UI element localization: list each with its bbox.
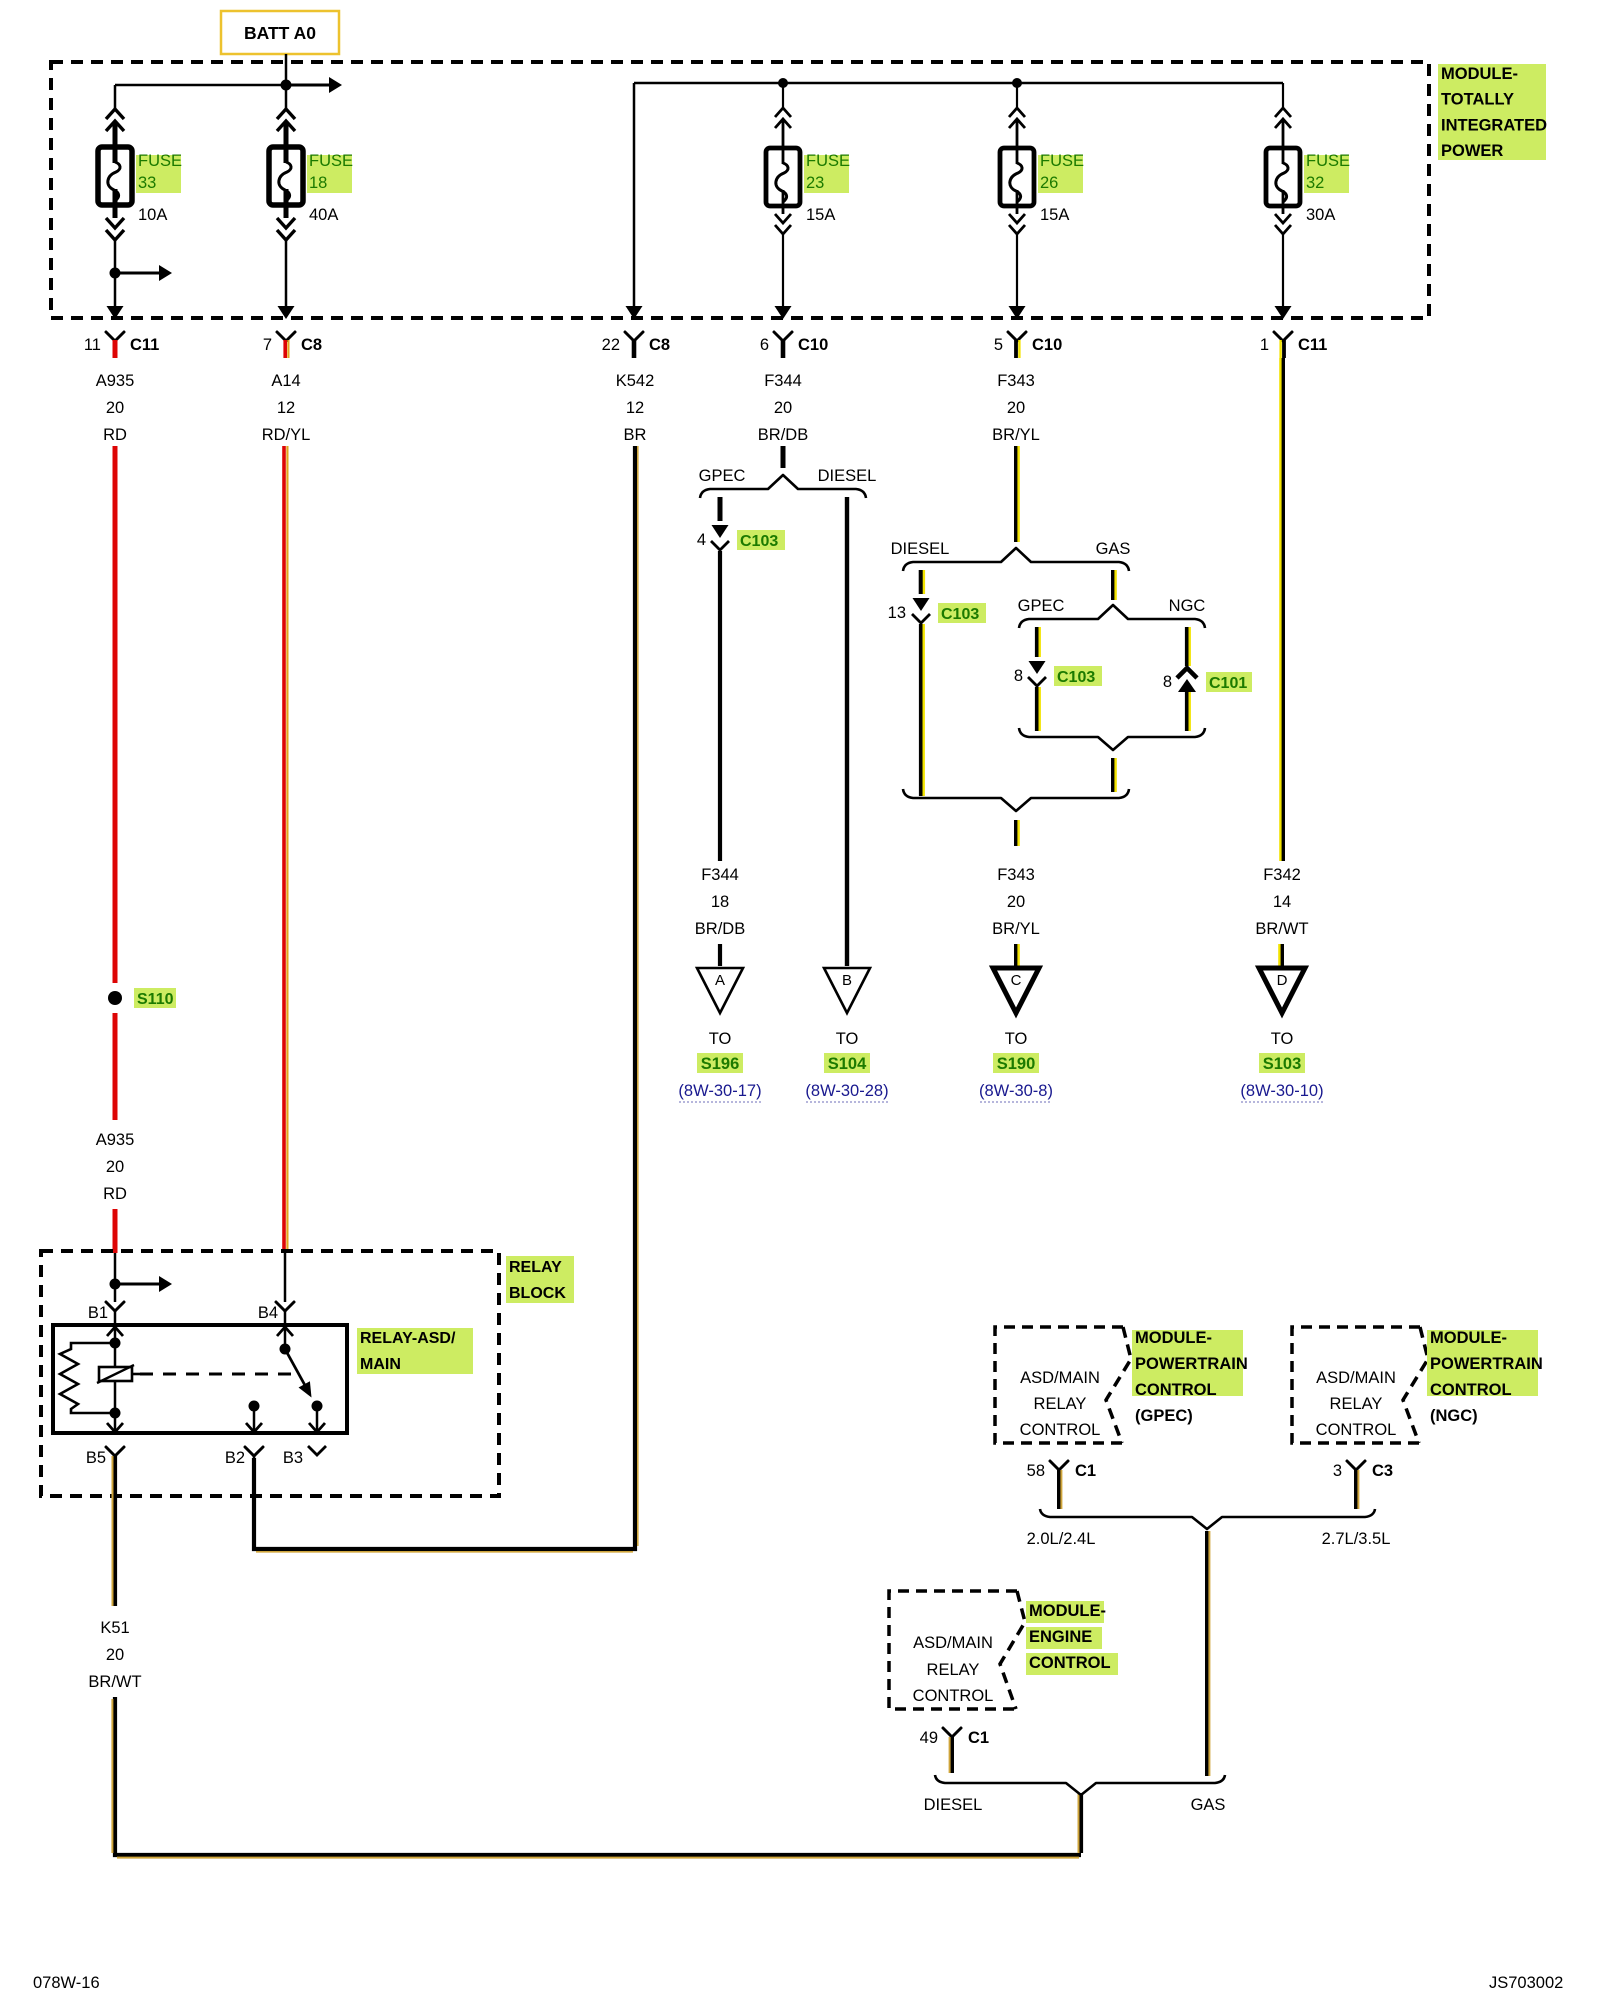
svg-text:FUSE: FUSE <box>806 152 850 170</box>
svg-text:CONTROL: CONTROL <box>1316 1421 1397 1439</box>
svg-text:14: 14 <box>1273 893 1291 911</box>
svg-text:C103: C103 <box>941 606 979 623</box>
svg-text:BR/WT: BR/WT <box>1255 920 1308 938</box>
svg-text:20: 20 <box>1007 399 1025 417</box>
svg-text:NGC: NGC <box>1169 597 1206 615</box>
svg-text:BR/DB: BR/DB <box>758 426 808 444</box>
svg-text:F343: F343 <box>997 866 1035 884</box>
svg-text:(8W-30-17): (8W-30-17) <box>678 1082 761 1100</box>
svg-text:DIESEL: DIESEL <box>818 467 877 485</box>
svg-text:MODULE-: MODULE- <box>1441 65 1518 83</box>
svg-text:ENGINE: ENGINE <box>1029 1628 1092 1646</box>
svg-text:C3: C3 <box>1372 1462 1393 1480</box>
svg-text:C1: C1 <box>1075 1462 1096 1480</box>
svg-text:18: 18 <box>711 893 729 911</box>
svg-text:6: 6 <box>760 336 769 354</box>
svg-text:TO: TO <box>709 1030 732 1048</box>
svg-text:CONTROL: CONTROL <box>1135 1381 1217 1399</box>
svg-text:15A: 15A <box>1040 206 1069 224</box>
svg-text:MODULE-: MODULE- <box>1029 1602 1106 1620</box>
svg-text:RD/YL: RD/YL <box>262 426 311 444</box>
svg-text:BR/DB: BR/DB <box>695 920 745 938</box>
svg-text:INTEGRATED: INTEGRATED <box>1441 116 1547 134</box>
svg-text:FUSE: FUSE <box>138 152 182 170</box>
svg-text:A935: A935 <box>96 372 135 390</box>
svg-text:C8: C8 <box>301 336 322 354</box>
svg-text:20: 20 <box>774 399 792 417</box>
svg-text:F344: F344 <box>764 372 802 390</box>
svg-text:RELAY: RELAY <box>509 1259 562 1276</box>
svg-text:2.0L/2.4L: 2.0L/2.4L <box>1027 1530 1096 1548</box>
svg-text:GPEC: GPEC <box>699 467 746 485</box>
svg-text:TO: TO <box>1271 1030 1294 1048</box>
svg-text:D: D <box>1277 972 1288 989</box>
svg-text:FUSE: FUSE <box>309 152 353 170</box>
svg-text:TO: TO <box>836 1030 859 1048</box>
svg-text:ASD/MAIN: ASD/MAIN <box>913 1634 993 1652</box>
svg-text:20: 20 <box>106 1158 124 1176</box>
svg-text:B2: B2 <box>225 1449 245 1467</box>
svg-text:CONTROL: CONTROL <box>1020 1421 1101 1439</box>
svg-text:POWER: POWER <box>1441 142 1503 160</box>
svg-text:C: C <box>1011 972 1022 989</box>
svg-text:12: 12 <box>277 399 295 417</box>
svg-text:GAS: GAS <box>1191 1796 1226 1814</box>
svg-text:ASD/MAIN: ASD/MAIN <box>1316 1369 1396 1387</box>
svg-text:22: 22 <box>602 336 620 354</box>
svg-text:BR: BR <box>624 426 647 444</box>
svg-text:C11: C11 <box>1298 336 1327 354</box>
svg-text:B5: B5 <box>86 1449 106 1467</box>
svg-text:F343: F343 <box>997 372 1035 390</box>
svg-text:TOTALLY: TOTALLY <box>1441 91 1514 109</box>
svg-text:7: 7 <box>263 336 272 354</box>
svg-text:FUSE: FUSE <box>1040 152 1084 170</box>
svg-text:FUSE: FUSE <box>1306 152 1350 170</box>
svg-text:32: 32 <box>1306 174 1324 192</box>
svg-text:13: 13 <box>888 604 906 622</box>
svg-text:JS703002: JS703002 <box>1489 1974 1563 1992</box>
svg-text:S104: S104 <box>828 1055 867 1073</box>
svg-text:33: 33 <box>138 174 156 192</box>
svg-text:B3: B3 <box>283 1449 303 1467</box>
svg-text:2.7L/3.5L: 2.7L/3.5L <box>1322 1530 1391 1548</box>
svg-text:CONTROL: CONTROL <box>1029 1654 1111 1672</box>
svg-text:078W-16: 078W-16 <box>33 1974 100 1992</box>
svg-text:(8W-30-8): (8W-30-8) <box>979 1082 1053 1100</box>
svg-text:RELAY: RELAY <box>927 1661 980 1679</box>
svg-text:12: 12 <box>626 399 644 417</box>
svg-text:(8W-30-10): (8W-30-10) <box>1240 1082 1323 1100</box>
svg-text:TO: TO <box>1005 1030 1028 1048</box>
svg-text:RELAY: RELAY <box>1034 1395 1087 1413</box>
svg-text:MAIN: MAIN <box>360 1356 401 1373</box>
svg-text:A: A <box>715 972 725 989</box>
svg-text:40A: 40A <box>309 206 338 224</box>
svg-text:BR/YL: BR/YL <box>992 920 1040 938</box>
svg-text:8: 8 <box>1014 667 1023 685</box>
svg-text:C11: C11 <box>130 336 159 354</box>
svg-text:C8: C8 <box>649 336 670 354</box>
svg-text:B1: B1 <box>88 1304 108 1322</box>
svg-text:20: 20 <box>1007 893 1025 911</box>
svg-text:15A: 15A <box>806 206 835 224</box>
svg-text:MODULE-: MODULE- <box>1135 1329 1212 1347</box>
svg-text:BR/YL: BR/YL <box>992 426 1040 444</box>
svg-text:4: 4 <box>697 531 706 549</box>
svg-text:49: 49 <box>920 1729 938 1747</box>
svg-text:BLOCK: BLOCK <box>509 1285 566 1302</box>
svg-text:(8W-30-28): (8W-30-28) <box>805 1082 888 1100</box>
svg-text:1: 1 <box>1260 336 1269 354</box>
svg-text:MODULE-: MODULE- <box>1430 1329 1507 1347</box>
svg-text:20: 20 <box>106 1646 124 1664</box>
svg-text:BATT A0: BATT A0 <box>244 23 316 43</box>
svg-text:CONTROL: CONTROL <box>1430 1381 1512 1399</box>
svg-text:ASD/MAIN: ASD/MAIN <box>1020 1369 1100 1387</box>
svg-text:DIESEL: DIESEL <box>924 1796 983 1814</box>
svg-text:S190: S190 <box>997 1055 1036 1073</box>
svg-text:20: 20 <box>106 399 124 417</box>
svg-text:S103: S103 <box>1263 1055 1302 1073</box>
svg-text:C103: C103 <box>740 533 778 550</box>
svg-text:F342: F342 <box>1263 866 1301 884</box>
svg-text:DIESEL: DIESEL <box>891 540 950 558</box>
svg-text:30A: 30A <box>1306 206 1335 224</box>
svg-text:POWERTRAIN: POWERTRAIN <box>1430 1355 1543 1373</box>
svg-text:C103: C103 <box>1057 669 1095 686</box>
svg-text:S196: S196 <box>701 1055 740 1073</box>
svg-text:CONTROL: CONTROL <box>913 1687 994 1705</box>
svg-text:18: 18 <box>309 174 327 192</box>
svg-text:RD: RD <box>103 426 127 444</box>
svg-text:3: 3 <box>1333 1462 1342 1480</box>
svg-text:GPEC: GPEC <box>1018 597 1065 615</box>
svg-text:BR/WT: BR/WT <box>88 1673 141 1691</box>
svg-text:A14: A14 <box>271 372 300 390</box>
svg-text:RELAY-ASD/: RELAY-ASD/ <box>360 1330 456 1347</box>
svg-text:K51: K51 <box>100 1619 129 1637</box>
svg-text:POWERTRAIN: POWERTRAIN <box>1135 1355 1248 1373</box>
svg-text:8: 8 <box>1163 673 1172 691</box>
svg-text:A935: A935 <box>96 1131 135 1149</box>
svg-text:C10: C10 <box>798 336 828 354</box>
svg-text:26: 26 <box>1040 174 1058 192</box>
svg-text:23: 23 <box>806 174 824 192</box>
svg-text:58: 58 <box>1027 1462 1045 1480</box>
svg-text:10A: 10A <box>138 206 167 224</box>
svg-text:(GPEC): (GPEC) <box>1135 1407 1193 1425</box>
svg-text:C10: C10 <box>1032 336 1062 354</box>
svg-text:B: B <box>842 972 852 989</box>
svg-text:B4: B4 <box>258 1304 278 1322</box>
svg-text:(NGC): (NGC) <box>1430 1407 1478 1425</box>
svg-text:F344: F344 <box>701 866 739 884</box>
svg-text:11: 11 <box>84 336 101 354</box>
svg-text:GAS: GAS <box>1096 540 1131 558</box>
svg-text:5: 5 <box>994 336 1003 354</box>
svg-text:C101: C101 <box>1209 675 1247 692</box>
svg-text:K542: K542 <box>616 372 655 390</box>
svg-text:RELAY: RELAY <box>1330 1395 1383 1413</box>
svg-text:C1: C1 <box>968 1729 989 1747</box>
svg-text:RD: RD <box>103 1185 127 1203</box>
svg-text:S110: S110 <box>137 991 174 1008</box>
